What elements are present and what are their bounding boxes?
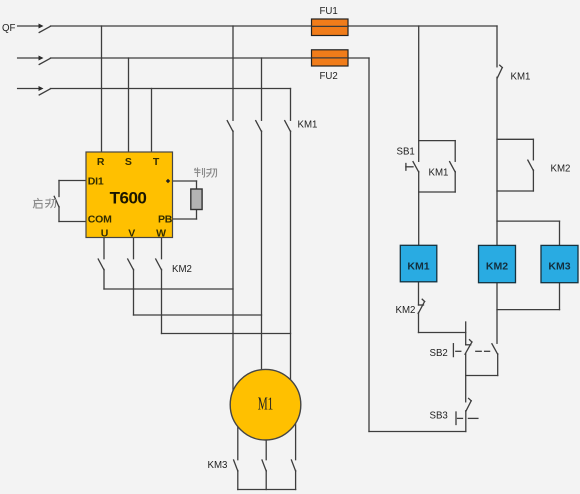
svg-text:W: W xyxy=(156,228,166,240)
svg-text:FU1: FU1 xyxy=(320,6,338,17)
svg-text:S: S xyxy=(125,156,132,168)
svg-text:T600: T600 xyxy=(110,189,147,208)
svg-text:FU2: FU2 xyxy=(320,71,338,82)
svg-text:QF: QF xyxy=(2,23,16,34)
svg-text:V: V xyxy=(128,228,135,240)
svg-text:T: T xyxy=(153,156,160,168)
svg-text:SB2: SB2 xyxy=(430,348,448,359)
svg-text:M1: M1 xyxy=(258,395,274,414)
svg-text:KM3: KM3 xyxy=(208,460,228,471)
svg-text:U: U xyxy=(101,228,108,240)
svg-text:KM2: KM2 xyxy=(551,164,571,175)
svg-text:SB3: SB3 xyxy=(430,411,448,422)
svg-text:KM1: KM1 xyxy=(429,168,449,179)
svg-text:KM1: KM1 xyxy=(298,120,318,131)
svg-text:KM1: KM1 xyxy=(511,72,531,83)
svg-text:KM2: KM2 xyxy=(172,264,192,275)
svg-text:PB: PB xyxy=(158,213,173,225)
svg-text:COM: COM xyxy=(88,213,112,225)
svg-text:KM1: KM1 xyxy=(407,261,429,273)
svg-text:SB1: SB1 xyxy=(397,147,415,158)
svg-text:R: R xyxy=(97,156,105,168)
svg-text:KM3: KM3 xyxy=(548,261,570,273)
svg-text:KM2: KM2 xyxy=(486,261,508,273)
svg-text:KM2: KM2 xyxy=(396,305,416,316)
svg-text:DI1: DI1 xyxy=(88,176,104,188)
